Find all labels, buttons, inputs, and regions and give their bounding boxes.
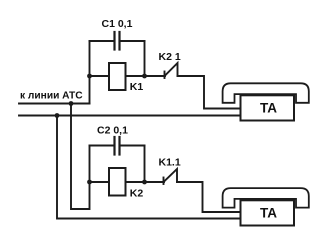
node D junction right of K2 bbox=[142, 180, 147, 185]
wire: from switch K2.1 to corner bbox=[178, 76, 242, 109]
svg-text:K1: K1 bbox=[130, 81, 144, 93]
wire: line-2 bus to top TA bbox=[19, 115, 241, 117]
capacitor C2 plates bbox=[113, 137, 115, 155]
node B junction right of K1 bbox=[142, 74, 147, 79]
wire: relay K2 row bbox=[90, 181, 165, 183]
svg-text:K2: K2 bbox=[130, 188, 144, 200]
wire: vertical from line-2 junction down to bottom TA bbox=[57, 116, 241, 219]
telephone TA-2 box bbox=[241, 200, 295, 225]
wire: vertical from line-1 end up to K1 node bbox=[89, 76, 91, 104]
wire: C2 branch top right bbox=[120, 145, 145, 147]
relay K1 coil box bbox=[109, 63, 126, 90]
svg-text:к линии АТС: к линии АТС bbox=[20, 91, 83, 102]
wire: C2 branch top left bbox=[90, 145, 115, 147]
wire: vertical from line-1 junction down bbox=[71, 104, 90, 210]
svg-text:C2 0,1: C2 0,1 bbox=[97, 125, 128, 137]
svg-text:K1.1: K1.1 bbox=[159, 156, 181, 168]
wire: line-1 bus under label bbox=[19, 103, 90, 105]
svg-text:C1 0,1: C1 0,1 bbox=[102, 18, 133, 30]
telephone TA-1 box bbox=[241, 95, 295, 120]
capacitor C1 branch right vertical bbox=[144, 41, 146, 76]
switch K2.1 contact tick bbox=[164, 72, 166, 79]
svg-text:K2 1: K2 1 bbox=[159, 51, 181, 63]
wire: relay K1 row bbox=[90, 75, 166, 77]
switch K1.1 blade bbox=[164, 169, 178, 182]
telephone TA-1 handset bbox=[223, 83, 309, 103]
node C junction left of K2 bbox=[87, 180, 92, 185]
svg-text:TA: TA bbox=[260, 101, 277, 116]
junction on line-1 bbox=[69, 101, 74, 106]
junction on line-2 bbox=[55, 113, 60, 118]
capacitor C2 branch right vertical bbox=[144, 146, 146, 183]
wire: C1 branch top left bbox=[90, 40, 115, 42]
capacitor C2 branch left vertical bbox=[89, 146, 91, 183]
capacitor C1 plates bbox=[113, 32, 115, 50]
wire: from switch K1.1 to corner bbox=[177, 182, 241, 212]
switch K2.1 blade bbox=[165, 63, 178, 76]
wire: C1 branch top right bbox=[120, 40, 145, 42]
svg-text:TA: TA bbox=[260, 205, 277, 220]
switch K1.1 contact tick bbox=[163, 178, 165, 185]
node A junction left of K1 bbox=[87, 74, 92, 79]
capacitor C1 branch left vertical bbox=[89, 41, 91, 76]
telephone TA-2 handset bbox=[223, 188, 309, 208]
relay K2 coil box bbox=[109, 168, 126, 196]
